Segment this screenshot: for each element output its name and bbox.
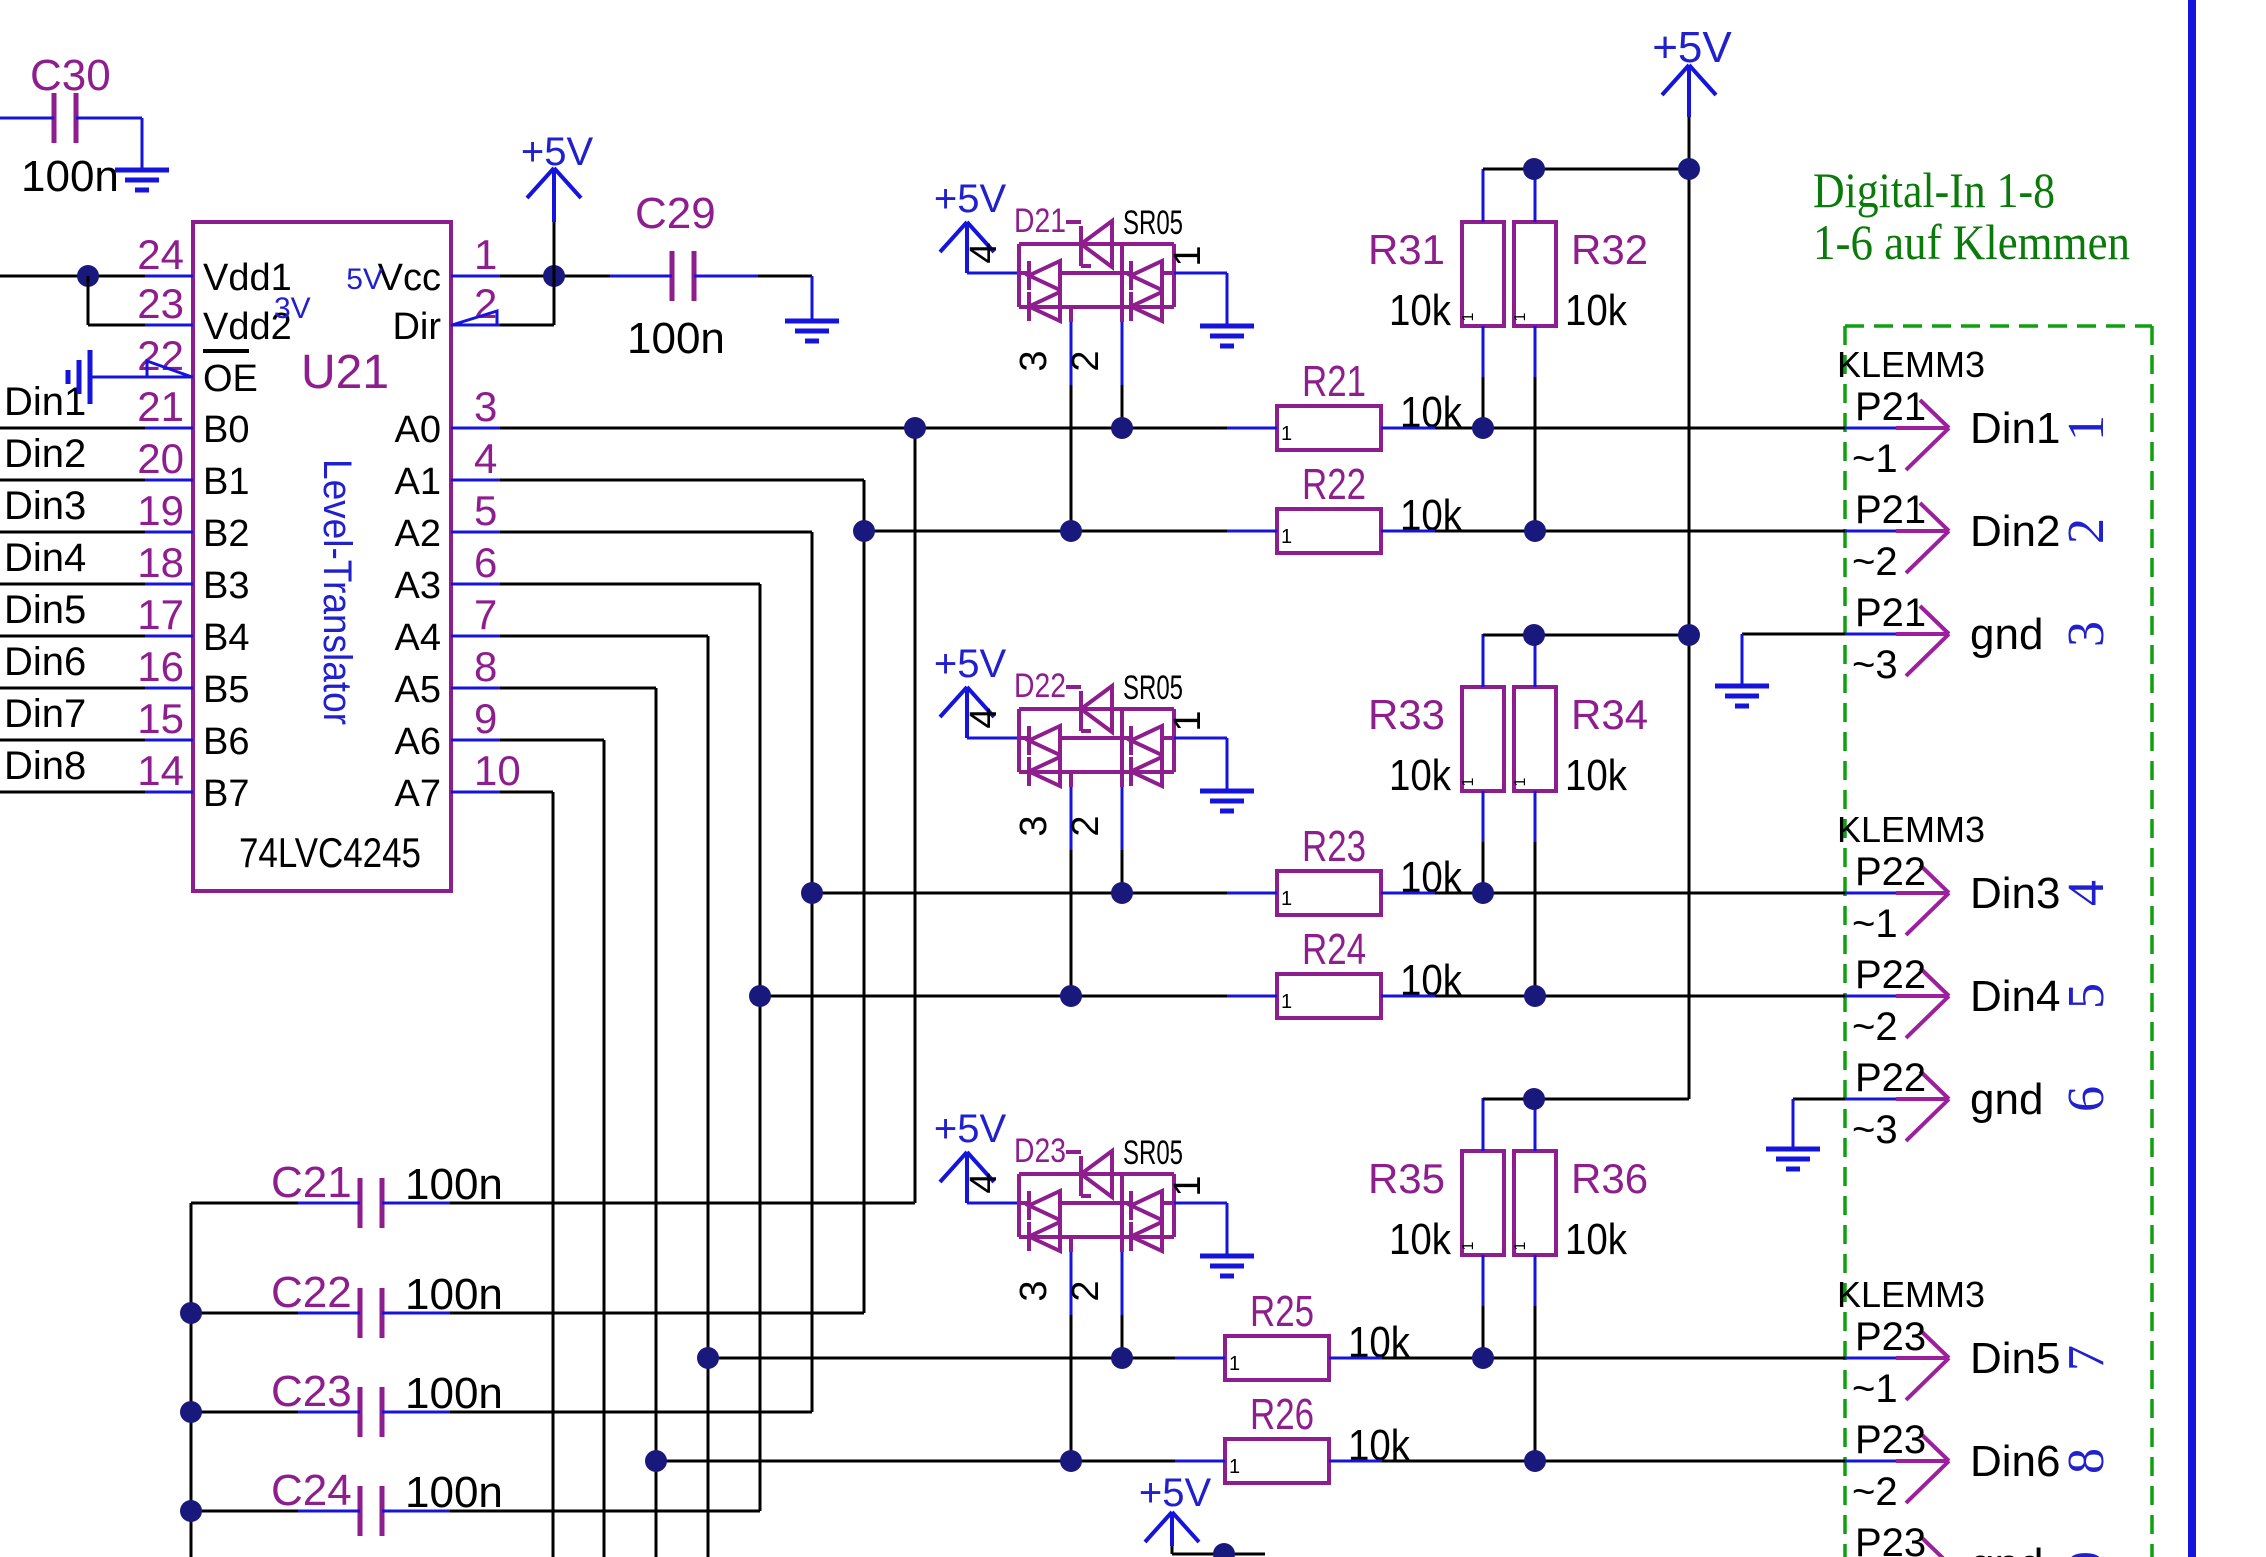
wire C23 row	[191, 1411, 298, 1414]
svg-text:10k: 10k	[1389, 1215, 1452, 1264]
wire R35 bottom to row	[1482, 1255, 1485, 1306]
diode array D21 SR05	[1019, 221, 1174, 321]
wire D21 pin 2	[1120, 307, 1124, 322]
svg-text:Din1: Din1	[1970, 404, 2061, 453]
terminal pin P22 ~3 gnd	[1896, 1071, 1949, 1141]
wire Din1 row to terminal	[1435, 427, 1845, 430]
svg-text:~2: ~2	[1852, 1470, 1898, 1514]
wire R23 left stub	[1227, 892, 1277, 895]
ground D21 pin 1	[1200, 326, 1254, 346]
svg-text:A4: A4	[395, 617, 441, 659]
svg-text:6: 6	[2058, 1086, 2115, 1112]
svg-text:19: 19	[137, 487, 184, 534]
wire A4 row	[500, 635, 708, 638]
wire Din4 row	[760, 995, 1227, 998]
svg-text:10: 10	[474, 747, 521, 794]
wire R35/R36 top rail	[1483, 1098, 1689, 1101]
svg-text:~2: ~2	[1852, 1005, 1898, 1049]
junction D23 pin3 Din6	[1060, 1450, 1082, 1472]
resistor R33 10k	[1462, 687, 1504, 791]
svg-text:R35: R35	[1368, 1155, 1445, 1202]
junction cap bus y=1412	[180, 1401, 202, 1423]
capacitor C23 100n	[360, 1387, 382, 1437]
junction R34 top rail	[1523, 624, 1545, 646]
wire R33 top stub	[1482, 634, 1485, 687]
wire A2 vertical bus	[811, 532, 814, 1412]
IC left pin stub y=740	[145, 739, 193, 742]
wire D22 pin 2	[1120, 772, 1124, 787]
svg-text:+5V: +5V	[934, 177, 1007, 221]
svg-text:4: 4	[963, 242, 1005, 263]
wire R21 right stub	[1381, 427, 1435, 430]
svg-text:R31: R31	[1368, 226, 1445, 273]
wire Din6 input from left edge	[0, 687, 145, 690]
svg-text:C30: C30	[30, 51, 111, 100]
svg-text:P22: P22	[1855, 1056, 1926, 1100]
svg-text:Din2: Din2	[1970, 507, 2061, 556]
svg-text:R23: R23	[1302, 822, 1366, 871]
wire D21 pin 3	[1069, 307, 1073, 322]
wire C29 left	[610, 275, 672, 278]
svg-text:21: 21	[137, 383, 184, 430]
wire A1 vertical bus	[863, 480, 866, 1313]
svg-text:10k: 10k	[1400, 388, 1463, 437]
wire Vdd2 branch	[87, 276, 90, 325]
svg-text:P21: P21	[1855, 385, 1926, 429]
svg-text:3: 3	[1013, 1280, 1055, 1301]
junction D22 pin2 Din3	[1111, 882, 1133, 904]
wire A3 vertical bus	[759, 584, 762, 1511]
svg-text:14: 14	[137, 747, 184, 794]
IC left pin stub y=532	[145, 531, 193, 534]
IC left pin stub y=792	[145, 791, 193, 794]
ground C29	[785, 321, 839, 341]
svg-text:B2: B2	[203, 513, 249, 555]
wire R22 right stub	[1381, 530, 1435, 533]
svg-text:SR05: SR05	[1123, 669, 1183, 707]
svg-text:5: 5	[474, 487, 497, 534]
junction A4 Din5	[697, 1347, 719, 1369]
svg-text:P22: P22	[1855, 850, 1926, 894]
svg-text:Din5: Din5	[4, 588, 86, 632]
junction R32 Din2	[1524, 520, 1546, 542]
terminal pin P23 ~3 gnd	[1896, 1536, 1949, 1557]
svg-text:R21: R21	[1302, 357, 1366, 406]
wire D21 pin 1 to ground	[1174, 272, 1227, 275]
svg-text:Din6: Din6	[4, 640, 86, 684]
wire A6 row	[500, 739, 604, 742]
wire C30 left	[0, 117, 54, 120]
wire R25 right stub	[1329, 1357, 1383, 1360]
svg-text:P21: P21	[1855, 488, 1926, 532]
wire R33 bottom to row	[1482, 791, 1485, 842]
svg-text:Din4: Din4	[1970, 972, 2061, 1021]
power +5V arrow D22	[940, 687, 994, 717]
svg-text:P21: P21	[1855, 591, 1926, 635]
svg-text:3: 3	[1013, 815, 1055, 836]
svg-text:8: 8	[2058, 1448, 2115, 1474]
svg-text:SR05: SR05	[1123, 1134, 1183, 1172]
junction R35 Din5	[1472, 1347, 1494, 1369]
wire D22 pin 4	[967, 737, 1019, 740]
ground symbol on OE rotated	[68, 350, 90, 404]
svg-text:1: 1	[1512, 1241, 1529, 1250]
resistor R31 10k	[1462, 222, 1504, 326]
svg-text:C23: C23	[271, 1367, 352, 1416]
junction +5V bottom	[1213, 1543, 1235, 1557]
wire +5V vertical bus	[1688, 117, 1691, 1099]
junction +5V rail 1	[1678, 158, 1700, 180]
OE pin input wedge	[147, 361, 192, 377]
IC right pin stub y=740	[451, 739, 500, 742]
svg-text:15: 15	[137, 695, 184, 742]
junction R32 top rail	[1523, 158, 1545, 180]
svg-text:1: 1	[1281, 423, 1292, 445]
svg-text:A7: A7	[395, 773, 441, 815]
svg-text:~1: ~1	[1852, 1367, 1898, 1411]
IC left pin stub y=584	[145, 583, 193, 586]
junction R31 Din1	[1472, 417, 1494, 439]
svg-text:A0: A0	[395, 409, 441, 451]
wire Vdd1 rail from left	[0, 275, 145, 278]
terminal pin P21 ~2 Din2	[1896, 503, 1949, 573]
svg-text:1: 1	[1460, 1241, 1477, 1250]
svg-text:1: 1	[1460, 312, 1477, 321]
svg-text:U21: U21	[301, 346, 389, 399]
svg-text:KLEMM3: KLEMM3	[1837, 809, 1985, 850]
wire Din5 row	[708, 1357, 1175, 1360]
svg-text:Digital-In 1-8: Digital-In 1-8	[1813, 162, 2055, 218]
diode array D22 SR05	[1019, 686, 1174, 786]
svg-text:1: 1	[1512, 777, 1529, 786]
wire A7 row	[500, 791, 553, 794]
power +5V arrow D21	[940, 222, 994, 252]
svg-text:74LVC4245: 74LVC4245	[239, 829, 421, 876]
wire D23 pin 1 to ground	[1174, 1202, 1227, 1205]
wire gnd terminal 2	[1793, 1098, 1845, 1101]
wire D23 pin 3	[1069, 1237, 1073, 1252]
ground D23 pin 1	[1200, 1256, 1254, 1276]
junction R36 Din6	[1524, 1450, 1546, 1472]
IC left pin stub y=325	[145, 324, 193, 327]
svg-text:SR05: SR05	[1123, 204, 1183, 242]
wire A0 row Din1 net	[500, 427, 1227, 430]
svg-text:9: 9	[2058, 1551, 2115, 1557]
svg-text:P23: P23	[1855, 1315, 1926, 1359]
svg-text:+5V: +5V	[934, 642, 1007, 686]
svg-text:10k: 10k	[1348, 1421, 1411, 1470]
junction D23 pin2 Din5	[1111, 1347, 1133, 1369]
IC right pin stub y=276	[451, 275, 500, 278]
svg-text:8: 8	[474, 643, 497, 690]
svg-text:A2: A2	[395, 513, 441, 555]
svg-text:6: 6	[474, 539, 497, 586]
svg-text:B7: B7	[203, 773, 249, 815]
wire Din1 input from left edge	[0, 427, 145, 430]
junction D21 pin2 Din1	[1111, 417, 1133, 439]
svg-text:R22: R22	[1302, 460, 1366, 509]
wire +5V stem black	[553, 222, 556, 276]
wire D23 pin 2	[1120, 1237, 1124, 1252]
junction A1 Din2	[853, 520, 875, 542]
svg-text:~1: ~1	[1852, 902, 1898, 946]
wire +5V stem blue	[552, 168, 556, 222]
wire terminal stub Din2 P21~2	[1845, 530, 1896, 533]
terminal pin P21 ~3 gnd	[1896, 606, 1949, 676]
svg-text:10k: 10k	[1400, 853, 1463, 902]
svg-text:Din6: Din6	[1970, 1437, 2061, 1486]
svg-text:Din4: Din4	[4, 536, 86, 580]
svg-text:2: 2	[1065, 350, 1107, 371]
junction A5 Din6	[645, 1450, 667, 1472]
svg-text:~3: ~3	[1852, 643, 1898, 687]
ground D22 pin 1	[1200, 791, 1254, 811]
svg-text:R36: R36	[1571, 1155, 1648, 1202]
wire C29 right to ground	[694, 275, 758, 278]
svg-text:Dir: Dir	[392, 306, 441, 348]
wire R35 top stub	[1482, 1098, 1485, 1151]
svg-text:24: 24	[137, 231, 184, 278]
svg-text:P23: P23	[1855, 1521, 1926, 1557]
terminal pin P22 ~1 Din3	[1896, 865, 1949, 935]
svg-text:Din5: Din5	[1970, 1334, 2061, 1383]
resistor R24 10k	[1277, 974, 1381, 1018]
wire R36 top stub	[1534, 1098, 1537, 1151]
svg-text:20: 20	[137, 435, 184, 482]
wire R33/R34 top rail	[1483, 634, 1689, 637]
svg-text:10k: 10k	[1389, 286, 1452, 335]
wire terminal stub gnd P22~3	[1845, 1098, 1896, 1101]
junction D21 pin3 Din2	[1060, 520, 1082, 542]
svg-text:D23: D23	[1014, 1132, 1066, 1170]
svg-text:100n: 100n	[21, 152, 119, 201]
svg-text:10k: 10k	[1565, 751, 1628, 800]
svg-text:5V: 5V	[346, 263, 383, 296]
svg-text:R25: R25	[1250, 1287, 1314, 1336]
svg-text:1: 1	[1460, 777, 1477, 786]
capacitor C30	[54, 93, 76, 143]
wire R26 left stub	[1175, 1460, 1225, 1463]
ground C30	[115, 170, 169, 190]
wire gnd terminal 1	[1742, 633, 1845, 636]
OE overbar	[203, 349, 249, 353]
resistor R23 10k	[1277, 871, 1381, 915]
wire R25 left stub	[1175, 1357, 1225, 1360]
svg-text:1: 1	[474, 231, 497, 278]
wire +5V node to Dir pin	[553, 276, 556, 325]
svg-text:1: 1	[1281, 526, 1292, 548]
IC left pin stub y=480	[145, 479, 193, 482]
wire R21 left stub	[1227, 427, 1277, 430]
svg-text:16: 16	[137, 643, 184, 690]
svg-text:3V: 3V	[274, 292, 311, 325]
resistor R22 10k	[1277, 509, 1381, 553]
capacitor C24 100n	[360, 1486, 382, 1536]
svg-text:gnd: gnd	[1970, 1075, 2043, 1124]
wire terminal stub gnd P21~3	[1845, 633, 1896, 636]
junction R34 Din4	[1524, 985, 1546, 1007]
svg-text:KLEMM3: KLEMM3	[1837, 344, 1985, 385]
svg-text:Din7: Din7	[4, 692, 86, 736]
IC left pin stub y=276	[145, 275, 193, 278]
IC left pin stub y=377	[145, 376, 193, 379]
svg-text:+5V: +5V	[934, 1107, 1007, 1151]
svg-text:C21: C21	[271, 1158, 352, 1207]
svg-text:10k: 10k	[1348, 1318, 1411, 1367]
svg-text:2: 2	[1065, 815, 1107, 836]
wire +5V stem D21	[965, 222, 969, 273]
svg-text:D21: D21	[1014, 202, 1066, 240]
svg-text:KLEMM3: KLEMM3	[1837, 1274, 1985, 1315]
svg-text:1: 1	[1512, 312, 1529, 321]
svg-text:18: 18	[137, 539, 184, 586]
wire A4 vertical bus	[707, 636, 710, 1557]
wire Din7 input from left edge	[0, 739, 145, 742]
wire R34 top stub	[1534, 634, 1537, 687]
wire cap left bus	[190, 1203, 193, 1557]
svg-text:+5V: +5V	[1139, 1471, 1212, 1515]
svg-text:B1: B1	[203, 461, 249, 503]
junction R33 Din3	[1472, 882, 1494, 904]
svg-text:7: 7	[2058, 1345, 2115, 1371]
svg-text:B3: B3	[203, 565, 249, 607]
wire C24 row	[191, 1510, 298, 1513]
junction cap bus y=1511	[180, 1500, 202, 1522]
wire C21 row	[191, 1202, 298, 1205]
wire A5 vertical bus	[655, 688, 658, 1557]
svg-text:4: 4	[963, 1172, 1005, 1193]
svg-text:2: 2	[474, 280, 497, 327]
wire C22 row	[191, 1312, 298, 1315]
wire R22 left stub	[1227, 530, 1277, 533]
svg-text:Din3: Din3	[1970, 869, 2061, 918]
svg-text:R24: R24	[1302, 925, 1366, 974]
svg-text:A1: A1	[395, 461, 441, 503]
IC right pin stub y=792	[451, 791, 500, 794]
capacitor C21 100n	[360, 1178, 382, 1228]
wire Din2 row	[864, 530, 1227, 533]
wire +5V stem D23	[965, 1152, 969, 1203]
power +5V arrow	[527, 168, 581, 198]
wire R31/R32 top rail	[1483, 168, 1689, 171]
svg-text:1: 1	[1229, 1353, 1240, 1375]
junction Vcc +5V	[543, 265, 565, 287]
junction A2 Din3	[801, 882, 823, 904]
svg-text:Din1: Din1	[4, 380, 86, 424]
wire R34 bottom to row	[1534, 791, 1537, 842]
wire +5V bottom stem	[1170, 1512, 1174, 1546]
svg-text:B6: B6	[203, 721, 249, 763]
wire R24 left stub	[1227, 995, 1277, 998]
svg-text:Din3: Din3	[4, 484, 86, 528]
svg-text:2: 2	[2058, 518, 2115, 544]
IC U21 74LVC4245 box	[193, 222, 451, 891]
wire terminal stub Din4 P22~2	[1845, 995, 1896, 998]
wire Din8 input from left edge	[0, 791, 145, 794]
wire Din3 row	[812, 892, 1227, 895]
IC right pin stub y=428	[451, 427, 500, 430]
wire Vcc to +5V node	[500, 275, 610, 278]
wire R23 right stub	[1381, 892, 1435, 895]
wire OE to ground	[90, 376, 145, 379]
wire C30 right to ground	[76, 117, 142, 120]
resistor R32 10k	[1514, 222, 1556, 326]
svg-text:10k: 10k	[1565, 1215, 1628, 1264]
wire terminal stub Din3 P22~1	[1845, 892, 1896, 895]
svg-text:1: 1	[2058, 415, 2115, 441]
wire D21 pin 4	[967, 272, 1019, 275]
junction cap bus y=1313	[180, 1302, 202, 1324]
svg-text:B0: B0	[203, 409, 249, 451]
svg-text:10k: 10k	[1565, 286, 1628, 335]
IC right pin stub y=688	[451, 687, 500, 690]
svg-text:1: 1	[1167, 710, 1209, 731]
wire R31 top stub	[1482, 169, 1485, 222]
svg-text:~1: ~1	[1852, 437, 1898, 481]
schematic frame border right	[2188, 0, 2196, 1557]
wire Din3 input from left edge	[0, 531, 145, 534]
resistor R36 10k	[1514, 1151, 1556, 1255]
svg-text:P23: P23	[1855, 1418, 1926, 1462]
svg-text:C29: C29	[635, 189, 716, 238]
wire Din6 row	[656, 1460, 1175, 1463]
power +5V arrow bottom	[1145, 1512, 1199, 1542]
Dir pin input wedge	[452, 311, 497, 325]
IC right pin stub y=584	[451, 583, 500, 586]
svg-text:A5: A5	[395, 669, 441, 711]
wire A6 vertical bus	[603, 740, 606, 1557]
svg-text:Level-Translator: Level-Translator	[315, 459, 359, 725]
svg-text:4: 4	[474, 435, 497, 482]
wire Din2 input from left edge	[0, 479, 145, 482]
power +5V arrow top right	[1662, 65, 1716, 95]
IC left pin stub y=636	[145, 635, 193, 638]
svg-text:1: 1	[1167, 1175, 1209, 1196]
wire R32 bottom to row	[1534, 326, 1537, 377]
wire A7 vertical bus	[552, 792, 555, 1557]
diode array D23 SR05	[1019, 1151, 1174, 1251]
wire A0 vertical bus to C21	[914, 428, 917, 1203]
wire A5 row	[500, 687, 656, 690]
junction A3 Din4	[749, 985, 771, 1007]
resistor R26 10k	[1225, 1439, 1329, 1483]
wire A1 row	[500, 479, 864, 482]
svg-text:3: 3	[474, 383, 497, 430]
resistor R21 10k	[1277, 406, 1381, 450]
junction D22 pin3 Din4	[1060, 985, 1082, 1007]
svg-text:~3: ~3	[1852, 1108, 1898, 1152]
wire R31 bottom to row	[1482, 326, 1485, 377]
svg-text:~2: ~2	[1852, 540, 1898, 584]
wire D22 pin 1 to ground	[1174, 737, 1227, 740]
svg-text:P22: P22	[1855, 953, 1926, 997]
svg-text:3: 3	[2058, 621, 2115, 647]
wire D22 pin 3	[1069, 772, 1073, 787]
wire terminal stub Din6 P23~2	[1845, 1460, 1896, 1463]
resistor R25 10k	[1225, 1336, 1329, 1380]
IC right pin stub y=532	[451, 531, 500, 534]
wire R36 bottom to row	[1534, 1255, 1537, 1306]
svg-text:OE: OE	[203, 358, 258, 400]
svg-text:4: 4	[2058, 880, 2115, 906]
svg-text:4: 4	[963, 707, 1005, 728]
svg-text:9: 9	[474, 695, 497, 742]
svg-text:gnd: gnd	[1970, 1540, 2043, 1557]
svg-text:100n: 100n	[627, 314, 725, 363]
wire +5V stem	[1687, 65, 1691, 117]
svg-text:+5V: +5V	[1652, 23, 1732, 72]
svg-text:B4: B4	[203, 617, 249, 659]
